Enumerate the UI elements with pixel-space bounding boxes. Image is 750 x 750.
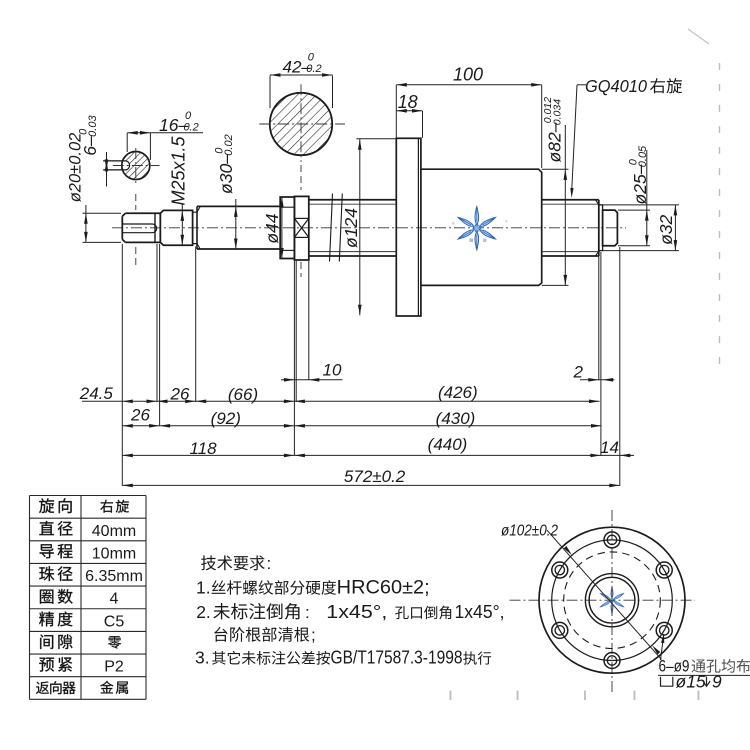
svg-text:118: 118 xyxy=(189,439,217,458)
svg-text:(66): (66) xyxy=(228,385,258,404)
svg-text:C5: C5 xyxy=(104,613,125,630)
svg-text:(92): (92) xyxy=(211,409,241,428)
svg-text:10: 10 xyxy=(323,361,342,380)
svg-text:26: 26 xyxy=(130,406,150,425)
svg-text:(440): (440) xyxy=(428,435,468,454)
svg-text:0.05: 0.05 xyxy=(637,145,649,167)
svg-text::: : xyxy=(267,554,272,573)
svg-text:0.2: 0.2 xyxy=(306,63,321,75)
svg-text::: : xyxy=(305,603,310,622)
svg-text:26: 26 xyxy=(170,385,190,404)
svg-text:ø44: ø44 xyxy=(262,213,282,243)
svg-text:ø30–: ø30– xyxy=(216,154,236,194)
svg-text:24.5: 24.5 xyxy=(79,384,114,403)
svg-text:572±0.2: 572±0.2 xyxy=(344,467,406,486)
svg-text:P2: P2 xyxy=(104,659,124,676)
svg-text:1x45°,: 1x45°, xyxy=(326,601,387,622)
svg-text:0: 0 xyxy=(308,52,315,64)
svg-text:18: 18 xyxy=(398,92,418,112)
svg-text:ø124: ø124 xyxy=(341,208,361,248)
svg-text:3.: 3. xyxy=(195,648,210,668)
svg-text:1x45°,: 1x45°, xyxy=(455,601,505,622)
svg-text:0.034: 0.034 xyxy=(552,99,564,125)
svg-text:2.: 2. xyxy=(196,602,211,622)
svg-text:GQ4010: GQ4010 xyxy=(585,76,647,96)
svg-text:6.35mm: 6.35mm xyxy=(85,568,143,585)
svg-text:0.02: 0.02 xyxy=(223,134,235,155)
svg-text:1.: 1. xyxy=(196,578,211,598)
svg-text:0.03: 0.03 xyxy=(87,115,99,137)
svg-text:40mm: 40mm xyxy=(92,523,136,540)
svg-text:4: 4 xyxy=(110,591,119,608)
svg-text:ø20±0.02: ø20±0.02 xyxy=(67,133,85,203)
svg-text:M25x1.5: M25x1.5 xyxy=(169,135,189,205)
svg-text:(430): (430) xyxy=(436,409,476,428)
svg-text:ø25–: ø25– xyxy=(630,164,650,204)
svg-text:10mm: 10mm xyxy=(92,545,136,562)
svg-text:ø102±0.2: ø102±0.2 xyxy=(501,523,558,540)
svg-text:14: 14 xyxy=(600,438,619,457)
svg-text:ø15: ø15 xyxy=(676,672,706,692)
svg-text:ø82–: ø82– xyxy=(545,122,565,162)
svg-text:;: ; xyxy=(311,626,316,645)
svg-text:ø32: ø32 xyxy=(656,214,676,244)
svg-text:(426): (426) xyxy=(438,383,478,402)
svg-text:0.2: 0.2 xyxy=(183,122,198,134)
svg-text:9: 9 xyxy=(712,672,722,692)
svg-text:0: 0 xyxy=(185,110,192,122)
svg-text:2: 2 xyxy=(572,363,583,382)
svg-text:100: 100 xyxy=(453,65,483,85)
svg-text:GB/T17587.3-1998: GB/T17587.3-1998 xyxy=(331,648,463,668)
svg-text:HRC60±2;: HRC60±2; xyxy=(337,578,430,599)
